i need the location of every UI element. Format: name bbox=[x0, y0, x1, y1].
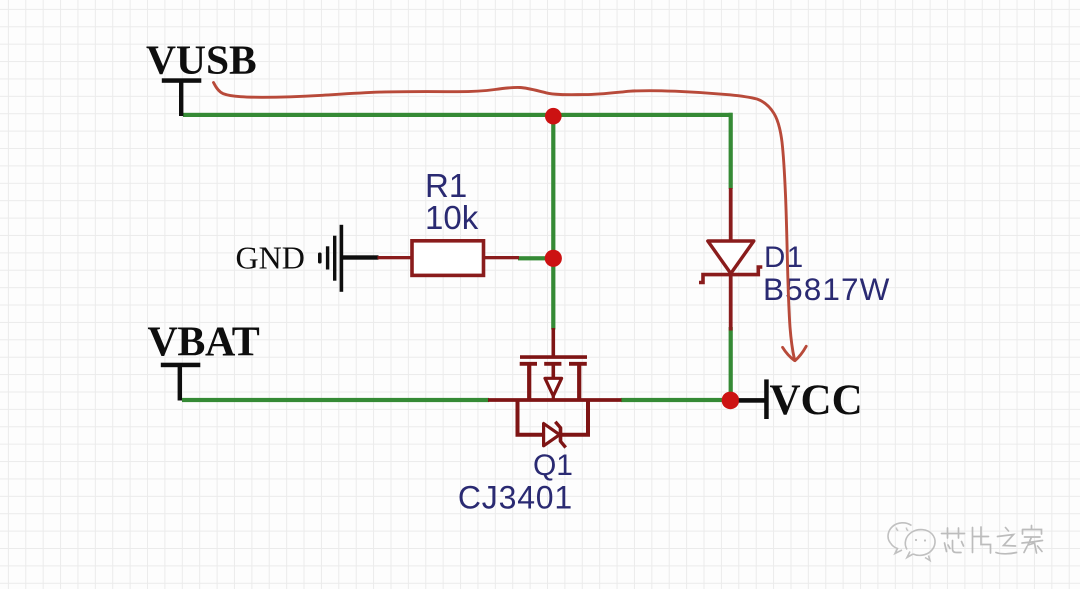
char zhi bbox=[996, 528, 1017, 554]
pin top bbox=[729, 188, 733, 241]
drain leg bbox=[577, 364, 581, 400]
char jia bbox=[1022, 526, 1043, 554]
port VCC bbox=[739, 377, 863, 424]
source leg bbox=[527, 364, 531, 400]
svg-text:D1: D1 bbox=[764, 241, 805, 274]
char pian bbox=[973, 527, 991, 553]
svg-text:VCC: VCC bbox=[770, 377, 863, 424]
diode D1 (schottky) bbox=[699, 188, 762, 331]
junction node: R1/gate bbox=[545, 250, 562, 267]
pin bottom bbox=[729, 276, 733, 331]
svg-text:VUSB: VUSB bbox=[146, 36, 257, 82]
body diode bar with ticks bbox=[555, 422, 565, 448]
source/drain pins through bbox=[488, 398, 622, 402]
wire: vertical from top junction to R1 junction bbox=[551, 114, 555, 259]
gate pin from wire bbox=[551, 328, 555, 356]
transistor Q1 (P-MOSFET) bbox=[488, 328, 622, 448]
watermark text: 芯片之家 bbox=[942, 526, 1043, 554]
char xin bbox=[942, 528, 965, 553]
svg-text:Q1: Q1 bbox=[533, 449, 573, 482]
cathode bar with schottky hooks bbox=[699, 267, 762, 283]
body diode triangle bbox=[544, 424, 560, 446]
wire: bottom net VBAT horizontal bbox=[182, 398, 489, 402]
ground symbol GND bbox=[236, 225, 379, 292]
triangle bbox=[708, 241, 754, 274]
wire: top net vertical down to D1 bbox=[729, 113, 733, 189]
svg-text:10k: 10k bbox=[425, 199, 479, 236]
junction node: VUSB/R1/D1 bbox=[545, 108, 562, 125]
body bbox=[412, 241, 484, 276]
pin left bbox=[378, 256, 412, 259]
svg-text:B5817W: B5817W bbox=[763, 271, 890, 307]
svg-text:CJ3401: CJ3401 bbox=[458, 479, 573, 515]
svg-text:GND: GND bbox=[236, 240, 305, 276]
wire: vertical from R1 junction to Q1 gate bbox=[551, 258, 555, 330]
arrow stem bbox=[551, 364, 555, 378]
wire: vertical from D1 cathode to VCC junction bbox=[729, 327, 733, 401]
wire: green from Q1 drain to VCC junction bbox=[621, 398, 726, 402]
body loop bbox=[518, 400, 589, 435]
wire: top net VUSB horizontal bbox=[183, 113, 733, 117]
junction node: VCC bbox=[722, 392, 740, 410]
pin right bbox=[484, 256, 519, 259]
gate bar bbox=[520, 355, 587, 359]
svg-text:VBAT: VBAT bbox=[148, 320, 260, 366]
annotation: red hand-drawn arrow from VUSB to VCC bbox=[214, 83, 807, 361]
arrow head (hollow) bbox=[545, 378, 562, 396]
channel dashed bar bbox=[520, 362, 537, 366]
watermark icon: chat bubbles bbox=[888, 523, 935, 561]
resistor R1 bbox=[378, 241, 520, 276]
port VUSB bbox=[146, 36, 257, 116]
port VBAT bbox=[148, 320, 260, 401]
wire: green from R1 right pin to junction bbox=[518, 256, 550, 260]
